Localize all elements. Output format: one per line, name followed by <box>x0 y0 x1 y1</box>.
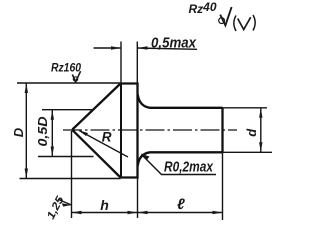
D arrow up <box>25 83 28 93</box>
shank end <box>221 108 223 153</box>
leader R0,2max line <box>142 155 217 175</box>
l left arrow <box>138 211 148 214</box>
extension line: shank bottom right <box>223 151 273 153</box>
dimension 0,5max right line <box>138 48 198 49</box>
extension line: head face down <box>137 178 139 218</box>
l right arrow <box>213 211 223 214</box>
dimension l line <box>138 212 223 214</box>
dimension h line <box>72 212 138 214</box>
0,5max right arrow <box>138 46 148 49</box>
extension line: 0,5D top <box>42 109 93 111</box>
svg-text:D: D <box>11 127 26 137</box>
extension line: 0,5D bottom <box>38 156 94 158</box>
dimension d line <box>260 108 262 153</box>
d arrow down <box>259 142 262 152</box>
extension line: cone base up <box>120 42 122 84</box>
dimension D line <box>25 83 27 179</box>
roughness symbol Rz40 <box>219 7 232 25</box>
svg-text:0,5max: 0,5max <box>151 35 197 52</box>
dimension 0,5D line <box>51 110 53 157</box>
shank bottom edge with fillet <box>138 152 223 165</box>
leader R line <box>80 131 129 157</box>
h left arrow <box>72 211 82 214</box>
centerline <box>63 129 237 131</box>
0,5D arrow up <box>51 110 54 120</box>
0,5max left arrow <box>111 46 121 49</box>
other-surfaces symbol (v) <box>234 15 255 31</box>
D arrow down <box>25 169 28 179</box>
extension line: head face up <box>136 42 138 84</box>
svg-text:R0,2max: R0,2max <box>164 158 214 175</box>
dimension 0,5max left line <box>94 47 122 49</box>
svg-text:Rz40: Rz40 <box>189 0 217 16</box>
d arrow up <box>259 108 262 118</box>
extension line: shank top right <box>223 107 268 109</box>
roughness symbol Rz160 <box>72 71 80 81</box>
leader R arrow <box>79 130 89 136</box>
svg-text:ℓ: ℓ <box>177 196 185 213</box>
svg-text:h: h <box>100 197 109 213</box>
rivet body outline <box>73 84 138 178</box>
svg-text:R: R <box>102 129 112 144</box>
extension line: apex down <box>71 131 73 218</box>
svg-text:Rz160: Rz160 <box>51 60 81 74</box>
shank top edge with fillet <box>138 95 223 108</box>
extension line: shank end down <box>222 153 224 221</box>
leader 1,25 arrow <box>62 203 72 206</box>
cone base edge <box>120 84 122 178</box>
extension line: head bottom, extended left <box>20 178 121 180</box>
leader R0,2max arrow <box>141 154 150 160</box>
0,5D arrow down <box>51 147 54 157</box>
svg-text:0,5D: 0,5D <box>36 117 50 147</box>
h right arrow <box>128 211 138 214</box>
extension line: head top, extended left <box>17 82 121 84</box>
leader 1,25 line <box>59 200 72 206</box>
svg-text:d: d <box>244 128 259 137</box>
